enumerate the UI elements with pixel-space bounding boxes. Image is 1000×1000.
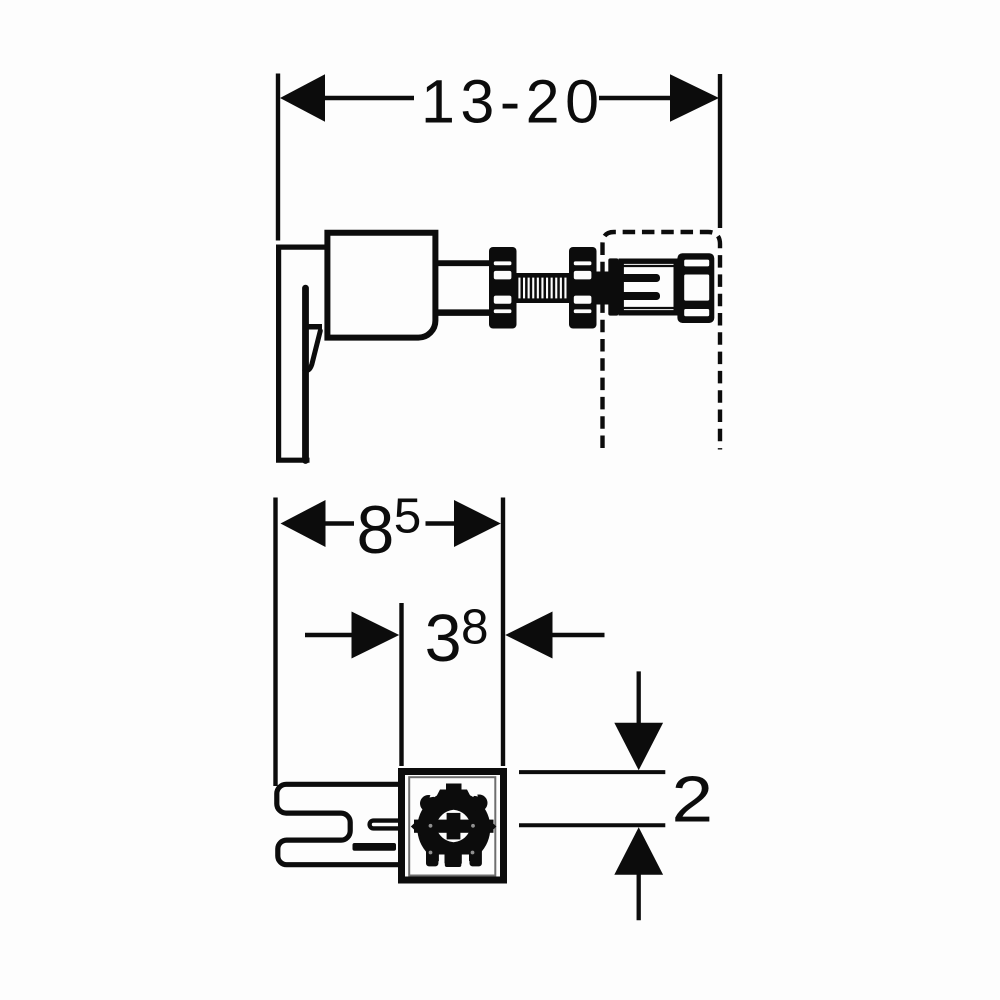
nut 2 body	[569, 247, 597, 329]
fitting ridge bar 1	[621, 274, 661, 282]
thread stripes	[518, 278, 566, 299]
arrowhead left (13-20)	[280, 74, 325, 121]
dimension shaft right (13-20)	[599, 96, 672, 101]
dimension 2 vertical line upper	[637, 671, 641, 723]
fitting flange	[608, 258, 618, 315]
svg-text:8: 8	[357, 492, 395, 568]
clip fork serpentine	[277, 784, 400, 864]
clip lower dash	[353, 843, 397, 851]
nut 1 body	[489, 247, 517, 329]
housing inner square	[409, 777, 495, 875]
svg-text:2: 2	[672, 763, 714, 835]
extension line 8.5/3.8 right	[501, 498, 505, 767]
wall plate outline	[279, 247, 330, 460]
nut 2 slots	[574, 261, 592, 313]
knob silhouette	[411, 784, 497, 868]
knob cross horizontal	[433, 820, 474, 833]
clip hook diagonal	[305, 331, 321, 371]
fitting body inner line top	[620, 265, 676, 267]
svg-text:13-20: 13-20	[421, 67, 605, 135]
arrowhead 3.8 left pointing right	[352, 612, 400, 659]
end cap slots	[684, 260, 709, 317]
thickness reference line lower	[519, 823, 665, 827]
threaded rod	[516, 273, 572, 303]
knob white eye vesica	[435, 810, 471, 843]
clip tab capsule	[370, 821, 399, 829]
dimension shafts 3.8	[305, 633, 352, 637]
nut 1 slots	[494, 261, 512, 313]
fitting body inner line bottom	[620, 307, 676, 309]
extension line 3.8 left	[399, 603, 403, 766]
extension line 8.5 left	[273, 498, 277, 787]
clip notch horizontal	[306, 324, 323, 330]
dashed outline box	[603, 232, 721, 450]
arrowhead right (13-20)	[670, 74, 719, 121]
svg-text:8: 8	[461, 599, 489, 654]
arrowhead 8.5 right	[454, 500, 501, 547]
extension line left (13-20)	[276, 74, 280, 241]
neck cylinder top line	[436, 260, 490, 266]
knob cross vertical	[447, 813, 461, 840]
housing outer square	[402, 772, 504, 881]
dimension 2 vertical line lower	[637, 874, 641, 920]
arrowhead 2 up	[614, 827, 663, 875]
knob white dots	[429, 824, 475, 855]
arrowhead 8.5 left	[281, 500, 326, 547]
fitting end cap	[677, 253, 714, 323]
dimension shaft left (13-20)	[323, 96, 414, 101]
svg-text:5: 5	[394, 488, 422, 543]
fitting body outline	[621, 261, 676, 313]
arrowhead 2 down	[614, 723, 663, 771]
neck cylinder bottom line	[436, 309, 490, 316]
plate inner edge / clip slot line	[302, 288, 309, 460]
arrowhead 3.8 right pointing left	[505, 612, 552, 659]
svg-text:3: 3	[425, 602, 462, 676]
thickness reference line upper	[519, 770, 665, 774]
bracket body	[327, 233, 435, 338]
dimension shafts 8.5	[326, 521, 355, 525]
fitting ridge bar 2	[621, 292, 661, 300]
extension line right (13-20)	[718, 74, 722, 228]
connector shaft	[597, 272, 609, 305]
knob white notches and gaps	[430, 788, 479, 869]
